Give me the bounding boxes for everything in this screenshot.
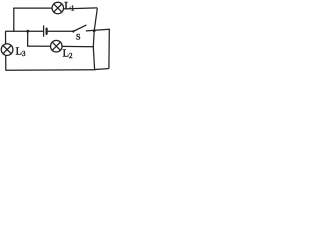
wire bottom horizontal [7, 69, 96, 72]
wire L2 branch vertical [27, 31, 29, 46]
node junction dot [26, 30, 29, 33]
switch S lever [74, 25, 86, 31]
battery cell short plate [45, 29, 47, 34]
wire L2 branch horizontal [28, 45, 51, 47]
wire top-right segment [63, 7, 97, 10]
wire L2 to right vertical [62, 45, 93, 47]
wire left vertical (top loop) [13, 8, 15, 31]
lamp L1 [52, 2, 64, 14]
wire L3 bottom vertical [5, 56, 8, 71]
svg-text:S: S [76, 32, 81, 42]
wire outer right vertical [95, 29, 110, 69]
wire middle-left segment [5, 31, 13, 44]
wire switch to outer right [86, 29, 109, 31]
switch S contact dot [72, 30, 74, 32]
lamp L3 [1, 44, 13, 56]
battery cell long plate [43, 26, 45, 36]
lamp L2 [51, 40, 63, 52]
node cross junction dot [93, 29, 96, 32]
wire inner right vertical [93, 8, 97, 70]
wire battery to switch [48, 30, 73, 32]
wire top-left segment [14, 7, 52, 9]
wire middle horizontal to battery [14, 30, 43, 32]
